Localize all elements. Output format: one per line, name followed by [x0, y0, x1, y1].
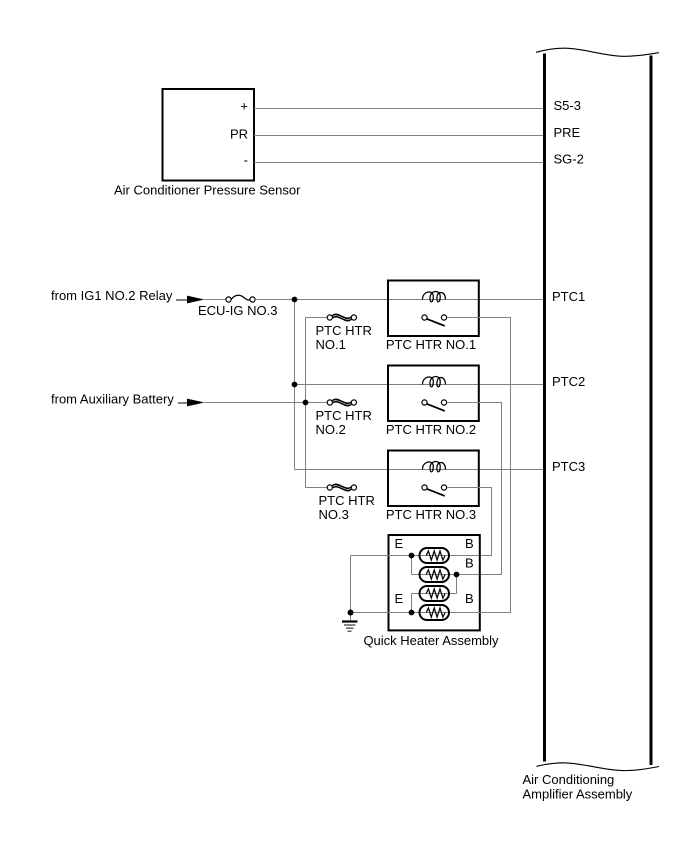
fuse ECU-IG NO.3: [226, 295, 255, 302]
junction dot heater4 left: [409, 610, 415, 616]
wire arrow to fuse ECU-IG: [205, 299, 226, 301]
svg-text:from IG1 NO.2 Relay: from IG1 NO.2 Relay: [51, 288, 173, 303]
svg-text:ECU-IG NO.3: ECU-IG NO.3: [198, 303, 277, 318]
heater element H2: [420, 567, 450, 582]
wire aux to fuse PTC HTR NO.3: [306, 487, 327, 489]
wire sensor + to S5-3: [254, 108, 543, 110]
svg-text:PTC HTR NO.1: PTC HTR NO.1: [386, 337, 476, 352]
wire relay3 switch to heater1: [447, 488, 492, 556]
fuse PTC HTR NO.2: [327, 399, 356, 407]
svg-text:PTC HTR NO.2: PTC HTR NO.2: [386, 422, 476, 437]
junction dot heater1 left: [409, 553, 415, 559]
fuse PTC HTR NO.3: [327, 484, 356, 492]
wire lead-in aux battery: [178, 402, 188, 404]
svg-text:PTC HTR NO.3: PTC HTR NO.3: [386, 507, 476, 522]
wire heater1 row: [351, 555, 450, 557]
svg-text:Amplifier Assembly: Amplifier Assembly: [523, 787, 633, 802]
wire lead-in IG1: [176, 299, 188, 301]
wire heater3 row: [412, 593, 457, 595]
ground: [342, 613, 358, 632]
junction dot ground: [348, 610, 354, 616]
junction dot IG1 bus top: [292, 297, 298, 303]
amplifier assembly right edge: [650, 56, 653, 766]
sensor box: Air Conditioner Pressure Sensor: [163, 89, 255, 181]
svg-text:SG-2: SG-2: [554, 152, 584, 167]
wire relay2 switch to heater2: [447, 403, 502, 575]
svg-text:S5-3: S5-3: [554, 98, 581, 113]
wire sensor - to SG-2: [254, 162, 543, 164]
fuse PTC HTR NO.1: [327, 314, 356, 322]
junction dot IG1 bus relay2: [292, 382, 298, 388]
svg-text:E: E: [395, 591, 404, 606]
wire relay1 switch to heater4: [447, 318, 511, 613]
svg-text:PTC1: PTC1: [552, 289, 585, 304]
svg-text:NO.2: NO.2: [316, 422, 346, 437]
svg-text:PTC HTR: PTC HTR: [316, 323, 372, 338]
svg-text:E: E: [395, 536, 404, 551]
svg-text:Quick Heater Assembly: Quick Heater Assembly: [363, 633, 499, 648]
quick heater assembly box: [389, 535, 480, 630]
arrow from IG1 NO.2 Relay: [187, 296, 205, 304]
svg-text:NO.1: NO.1: [316, 337, 346, 352]
amplifier top torn edge: [536, 48, 659, 56]
relay PTC HTR NO.3: [388, 451, 479, 507]
arrow from Auxiliary Battery: [187, 399, 205, 407]
wire relay3 coil feed to PTC3: [295, 469, 544, 471]
wire heater2 left up: [411, 556, 413, 575]
svg-text:PTC HTR: PTC HTR: [319, 493, 375, 508]
svg-text:PRE: PRE: [554, 125, 581, 140]
svg-text:B: B: [465, 556, 474, 571]
wire fuse to relay1 coil to PTC1: [255, 299, 543, 301]
amplifier bottom torn edge: [537, 763, 660, 771]
svg-text:-: -: [244, 153, 248, 168]
wire heater3 right up: [456, 575, 458, 594]
wire aux vertical bus: [305, 318, 307, 488]
wire ground branch: [350, 556, 352, 613]
heater element H4: [420, 605, 450, 620]
junction dot heater2 right: [454, 572, 460, 578]
amplifier assembly left edge: [543, 54, 546, 762]
svg-text:B: B: [465, 591, 474, 606]
junction dot aux bus: [303, 400, 309, 406]
svg-text:+: +: [240, 99, 248, 114]
wire relay2 coil feed to PTC2: [295, 384, 544, 386]
wire IG1 vertical bus: [294, 300, 296, 470]
relay PTC HTR NO.1: [388, 281, 479, 337]
svg-text:Air Conditioner Pressure Senso: Air Conditioner Pressure Sensor: [114, 183, 301, 198]
svg-text:from Auxiliary Battery: from Auxiliary Battery: [51, 392, 174, 407]
wire aux battery to fuse PTC HTR NO.2: [205, 402, 327, 404]
wire sensor PR to PRE: [254, 135, 543, 137]
svg-text:PR: PR: [230, 127, 248, 142]
wire heater2 row: [412, 574, 457, 576]
wire aux to fuse PTC HTR NO.1: [306, 317, 327, 319]
wire heater4 row: [351, 612, 511, 614]
svg-text:B: B: [465, 536, 474, 551]
wire heater3 left down: [411, 594, 413, 613]
heater element H1: [420, 548, 450, 563]
svg-text:PTC2: PTC2: [552, 374, 585, 389]
svg-text:PTC3: PTC3: [552, 459, 585, 474]
svg-text:PTC HTR: PTC HTR: [316, 408, 372, 423]
svg-text:NO.3: NO.3: [319, 507, 349, 522]
svg-text:Air Conditioning: Air Conditioning: [523, 772, 615, 787]
relay PTC HTR NO.2: [388, 366, 479, 422]
heater element H3: [420, 586, 450, 601]
